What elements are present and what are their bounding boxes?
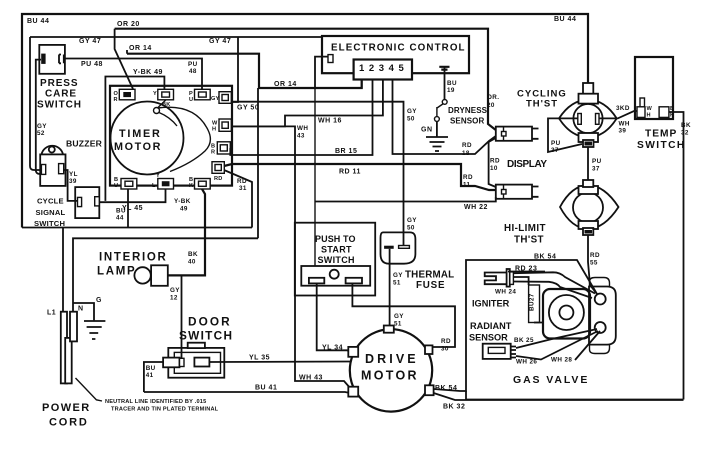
drive motor circle: [350, 329, 432, 411]
wire PU37 from cycling left contact loop to bottom terminal: [548, 118, 582, 152]
temp switch left terminal W/H: [637, 98, 653, 119]
svg-text:55: 55: [590, 260, 598, 267]
svg-text:32: 32: [681, 130, 689, 137]
svg-text:OR 14: OR 14: [129, 45, 152, 52]
wire RD30 from PTS right terminal to drive motor right: [352, 283, 455, 347]
wire BU44 riser from timer BU terminal down to line A: [127, 189, 129, 228]
press care switch right terminal: [59, 55, 64, 64]
wire OR 20 drop to timer OR terminal: [115, 29, 133, 89]
svg-text:BU 44: BU 44: [554, 16, 576, 23]
temp switch box: [635, 57, 673, 119]
svg-text:GY: GY: [211, 96, 220, 102]
wire tap to L1 plate: [62, 228, 64, 313]
ground symbol (power cord): [84, 321, 105, 339]
wire BU41 from door switch left terminal down to bottom run: [144, 362, 163, 392]
radiant sensor inner slot: [488, 347, 505, 353]
wire BU27 loop from igniter down to valve body: [513, 277, 543, 323]
wire RD11 from timer RD terminal to display lower connector: [224, 164, 496, 190]
svg-text:39: 39: [69, 178, 77, 185]
svg-text:GY: GY: [407, 108, 417, 115]
wire EC left terminal riser: [315, 57, 328, 88]
wire YL39 buzzer to cycle signal switch: [64, 170, 78, 201]
wire BU44 outer border: top, left, and bottom-left run: [22, 14, 588, 228]
svg-text:POWER: POWER: [42, 402, 91, 414]
svg-text:39: 39: [619, 128, 627, 135]
electronic control pins box 1 2 3 4 5: [354, 60, 412, 80]
svg-text:GY 50: GY 50: [237, 105, 259, 112]
wire from sensor to ground GN: [436, 122, 438, 138]
gas valve enclosure bottom/left: [466, 391, 684, 400]
gas valve bracket top hole: [595, 294, 606, 305]
svg-text:BK 25: BK 25: [514, 337, 534, 344]
svg-text:37: 37: [551, 147, 559, 154]
svg-text:WH 43: WH 43: [299, 375, 323, 382]
thermal fuse left terminal: [384, 246, 394, 249]
svg-text:BK: BK: [681, 122, 691, 129]
gas valve bracket outer tab top: [590, 278, 610, 287]
svg-text:THERMAL: THERMAL: [405, 270, 454, 281]
cycling thermostat bottom terminal: [579, 133, 599, 142]
radiant sensor box: [483, 344, 511, 359]
svg-text:MOTOR: MOTOR: [361, 369, 419, 383]
svg-text:RD: RD: [237, 178, 247, 185]
svg-text:SWITCH: SWITCH: [34, 219, 65, 228]
drive motor right-lower terminal: [425, 385, 434, 395]
svg-text:U: U: [114, 183, 118, 189]
svg-text:OR 14: OR 14: [274, 81, 297, 88]
timer terminal YL (bottom-middle): [152, 173, 174, 189]
wire BU19 from EC terminal down to dryness sensor: [444, 67, 446, 100]
svg-text:K: K: [189, 183, 193, 189]
display upper connector: [496, 127, 539, 141]
svg-text:51: 51: [394, 321, 402, 328]
svg-text:PU: PU: [592, 158, 602, 165]
wire BK32 bottom run from motor to right side: [434, 393, 684, 400]
svg-text:K: K: [670, 113, 674, 119]
wire PU48 from press care right terminal to timer PU terminal: [64, 59, 202, 90]
svg-text:IGNITER: IGNITER: [472, 299, 510, 309]
hi-limit thermostat lobed body: [560, 185, 619, 229]
svg-text:BK: BK: [188, 251, 198, 258]
wire WH43 vertical from timer WH line down to drive motor: [231, 126, 351, 389]
svg-text:41: 41: [146, 372, 154, 379]
hi-limit top terminal: [579, 186, 599, 194]
power cord plate L1: [61, 312, 67, 384]
svg-text:BK: BK: [162, 102, 170, 108]
svg-text:Y-BK: Y-BK: [174, 198, 191, 205]
cycling thermostat left contact: [578, 114, 582, 125]
wire RD23 from igniter to gas valve bracket: [513, 272, 595, 293]
svg-text:11: 11: [463, 182, 471, 189]
timer motor box: [110, 86, 232, 186]
wire WH24 from igniter to gas valve: [513, 282, 592, 299]
svg-text:44: 44: [116, 215, 124, 222]
svg-text:BK 54: BK 54: [435, 385, 457, 392]
wire GY47 right drop to timer GY terminal: [231, 37, 238, 102]
timer terminal BR (right side): [211, 142, 230, 156]
wire riser x=258 from line B up to OR14 bend: [257, 88, 259, 238]
svg-text:SWITCH: SWITCH: [318, 255, 355, 265]
svg-text:LAMP: LAMP: [97, 266, 136, 278]
svg-text:43: 43: [297, 133, 305, 140]
gas valve body: [543, 289, 590, 339]
svg-text:BU 41: BU 41: [255, 385, 277, 392]
svg-text:RD: RD: [590, 252, 600, 259]
svg-text:DISPLAY: DISPLAY: [507, 159, 547, 170]
svg-text:10: 10: [490, 165, 498, 172]
wire line B (y=238.3) interior lamp feed: [73, 238, 258, 311]
svg-text:R: R: [211, 150, 215, 156]
svg-text:CORD: CORD: [49, 417, 89, 429]
wire WH28 from valve lower area: [575, 331, 600, 360]
svg-text:Y: Y: [156, 173, 160, 179]
cycling thermostat right contact: [596, 114, 600, 125]
svg-text:DRYNESS: DRYNESS: [448, 106, 488, 115]
wire RD55 from hi-limit down to gas valve bracket: [588, 235, 597, 294]
svg-text:48: 48: [189, 68, 197, 75]
svg-text:PU 48: PU 48: [81, 61, 103, 68]
svg-text:BU27: BU27: [529, 293, 536, 311]
svg-text:20: 20: [487, 102, 495, 109]
timer terminal Y-BK (top-middle): [153, 89, 174, 108]
interior lamp bulb: [134, 267, 150, 283]
timer cam inner line: [159, 113, 177, 127]
electronic control left terminal: [328, 55, 333, 63]
push to start switch enclosure: [295, 223, 375, 296]
wire WH22 long run from cycle signal switch to display lower connector: [315, 197, 496, 202]
door switch inner box: [174, 352, 220, 373]
svg-text:PU: PU: [188, 61, 198, 68]
ground GN symbol: [426, 137, 448, 151]
timer terminal BU (bottom-left): [114, 177, 137, 189]
svg-text:50: 50: [407, 116, 415, 123]
svg-text:WH 16: WH 16: [318, 118, 342, 125]
svg-text:12345: 12345: [359, 63, 408, 74]
timer cam lobe curve: [158, 107, 211, 171]
svg-text:BK 32: BK 32: [443, 404, 465, 411]
interior lamp neck: [150, 272, 153, 280]
svg-text:YL: YL: [69, 171, 78, 178]
svg-text:CYCLE: CYCLE: [37, 197, 64, 206]
svg-text:GY: GY: [407, 217, 417, 224]
timer terminal RD (boxed, right side): [212, 162, 224, 182]
svg-text:W: W: [647, 106, 653, 112]
interior lamp base: [151, 265, 168, 286]
svg-text:PUSH TO: PUSH TO: [315, 234, 356, 244]
power cord plate middle: [65, 338, 72, 384]
svg-text:12: 12: [170, 295, 178, 302]
gas valve mounting bracket: [589, 287, 616, 345]
svg-text:ELECTRONIC CONTROL: ELECTRONIC CONTROL: [331, 43, 466, 54]
buzzer left terminal: [41, 165, 45, 175]
svg-text:GY: GY: [394, 313, 404, 320]
svg-text:RD 11: RD 11: [339, 169, 361, 176]
svg-text:GY 47: GY 47: [79, 38, 101, 45]
svg-text:YL 34: YL 34: [322, 345, 343, 352]
timer terminal PU (top-right): [189, 89, 210, 103]
svg-text:GY: GY: [170, 287, 180, 294]
cycle signal switch left terminal: [78, 197, 82, 206]
svg-text:L1: L1: [47, 310, 56, 317]
svg-text:H: H: [647, 113, 651, 119]
svg-text:MOTOR: MOTOR: [114, 141, 162, 153]
wire WH26 from radiant sensor to valve: [516, 331, 598, 360]
svg-text:GY: GY: [393, 272, 403, 279]
svg-text:GY: GY: [37, 123, 47, 130]
electronic control right terminal (bar pair): [439, 67, 449, 70]
electronic control box U1: [322, 36, 469, 73]
igniter connector plug: [485, 269, 514, 287]
wire GY12 from lamp down to door switch: [181, 275, 183, 358]
thermal fuse right terminal: [399, 246, 410, 249]
wire N to ground: [73, 303, 94, 320]
svg-text:DOOR: DOOR: [188, 315, 232, 329]
svg-text:SENSOR: SENSOR: [450, 117, 485, 126]
wire BK40 from lamp to line B: [168, 189, 205, 275]
svg-text:RD: RD: [214, 176, 222, 182]
svg-text:TH'ST: TH'ST: [514, 235, 544, 246]
svg-text:SWITCH: SWITCH: [179, 329, 233, 343]
wire BR15: EC pin2 down and left to timer BR terminal: [230, 80, 372, 156]
thermal fuse body: [381, 232, 416, 263]
svg-text:31: 31: [239, 185, 247, 192]
cycle signal switch box: [75, 187, 99, 218]
wire WH16: EC pin3 down, left, jog to timer WH terminal: [231, 80, 383, 127]
svg-text:40: 40: [188, 259, 196, 266]
svg-text:TEMP: TEMP: [645, 129, 677, 140]
svg-text:G: G: [96, 297, 102, 304]
svg-text:WH: WH: [297, 125, 308, 132]
svg-text:RADIANT: RADIANT: [470, 321, 512, 331]
buzzer inner circle: [49, 147, 55, 153]
buzzer box: [40, 154, 65, 186]
timer cam small circle: [154, 108, 160, 114]
svg-text:TH'ST: TH'ST: [526, 99, 558, 110]
display lower connector: [496, 185, 539, 199]
wire OR 20 top run: [115, 29, 496, 130]
press care switch PC1 box: [39, 45, 65, 74]
wire GY52 from press care left terminal down to buzzer: [36, 60, 42, 174]
svg-text:18: 18: [462, 150, 470, 157]
svg-text:49: 49: [180, 206, 188, 213]
timer terminal BK (bottom-right): [189, 177, 210, 189]
svg-text:RD: RD: [490, 158, 500, 165]
drive motor right-upper terminal: [425, 345, 433, 354]
svg-text:NEUTRAL LINE IDENTIFIED BY .01: NEUTRAL LINE IDENTIFIED BY .015: [105, 399, 206, 405]
svg-text:TIMER: TIMER: [119, 128, 162, 140]
svg-text:BK 54: BK 54: [534, 254, 556, 261]
svg-text:SWITCH: SWITCH: [37, 100, 82, 111]
svg-text:3KD: 3KD: [616, 105, 630, 112]
door switch top bump: [188, 343, 205, 348]
wire YL45 run below timer: [99, 189, 165, 202]
wire GY47 inner top line from buzzer riser to EC box: [30, 36, 322, 38]
svg-text:37: 37: [592, 166, 600, 173]
svg-text:WH 22: WH 22: [464, 204, 488, 211]
gas valve bracket bottom hole: [595, 322, 606, 333]
push to start right terminal: [346, 278, 362, 284]
svg-text:SIGNAL: SIGNAL: [36, 208, 66, 217]
svg-text:50: 50: [407, 225, 415, 232]
svg-text:U: U: [189, 97, 193, 103]
drive motor left-lower terminal: [348, 387, 358, 397]
radiant sensor right tabs: [511, 347, 516, 358]
svg-text:RD: RD: [462, 142, 472, 149]
gas valve coil inner circle: [559, 306, 573, 320]
timer cam link line: [158, 100, 167, 108]
cycling thermostat top terminal: [583, 83, 593, 94]
cycling thermostat lobed body: [559, 100, 617, 138]
cycling thermostat circle: [573, 104, 602, 133]
svg-text:Y-BK 49: Y-BK 49: [133, 69, 163, 76]
cycle signal switch right terminal: [95, 197, 100, 206]
wire line A (y=227.5) from left border to RD31 riser: [22, 227, 252, 229]
buzzer dome: [42, 146, 64, 155]
hi-limit thermostat circle: [573, 193, 603, 223]
svg-text:YL 35: YL 35: [249, 355, 270, 362]
svg-text:N: N: [78, 306, 84, 313]
power cord plate N: [70, 312, 77, 342]
svg-text:PU: PU: [551, 140, 561, 147]
door switch outer box: [168, 348, 224, 378]
hi-limit bottom terminal: [579, 221, 599, 229]
wire RD23 horizontal segment under label: [508, 271, 545, 273]
wire WH39 from cycling right contact to temp switch: [599, 111, 637, 118]
svg-text:WH: WH: [619, 121, 630, 128]
svg-text:SWITCH: SWITCH: [637, 140, 686, 151]
svg-text:BUZZER: BUZZER: [66, 139, 103, 149]
wire RD31 riser from line A up to timer RD terminal: [224, 170, 252, 228]
svg-text:R: R: [114, 97, 118, 103]
svg-text:Y: Y: [153, 91, 157, 97]
dryness sensor upper contact circle: [442, 100, 447, 105]
wire GY50 from timer GY terminal to thermal fuse: [231, 102, 403, 245]
press care switch left terminal: [41, 54, 45, 64]
svg-text:GN: GN: [421, 127, 433, 134]
wire YL34 from PTS left terminal to drive motor: [317, 283, 356, 354]
push to start switch box: [301, 266, 370, 286]
svg-text:19: 19: [447, 87, 455, 94]
wire RD10 between display connectors: [489, 138, 496, 187]
drive motor top terminal: [384, 326, 394, 333]
svg-text:52: 52: [37, 130, 45, 137]
wire BK32 from temp switch right terminal down right side to bottom: [669, 112, 684, 400]
gas valve bracket outer tab bottom: [590, 345, 610, 354]
svg-text:GAS VALVE: GAS VALVE: [513, 374, 589, 386]
svg-text:GY 47: GY 47: [209, 38, 231, 45]
wire BK25 from radiant sensor to valve: [516, 329, 597, 348]
timer motor main circle: [111, 102, 184, 175]
temp switch right terminal B/K: [659, 106, 674, 119]
timer terminal GY (right side): [211, 92, 231, 104]
wire long vertical x=315 down to push-to-start enclosure: [314, 88, 316, 266]
wire PU37 cycling bottom to hi-limit top: [587, 147, 589, 180]
timer terminal OR (top-left): [114, 89, 136, 103]
svg-text:DRIVE: DRIVE: [365, 352, 419, 366]
push to start left terminal: [309, 278, 324, 284]
svg-text:FUSE: FUSE: [416, 280, 445, 291]
wire Y-BK49 top loop: [105, 77, 164, 201]
gas valve coil circle: [549, 295, 584, 330]
svg-text:BR 15: BR 15: [335, 148, 357, 155]
wire OR14 run to EC: [126, 50, 128, 54]
svg-text:SENSOR: SENSOR: [469, 333, 508, 343]
push to start button circle: [330, 270, 339, 279]
door switch left terminal: [163, 358, 179, 368]
svg-text:INTERIOR: INTERIOR: [99, 252, 168, 264]
drive motor left-upper terminal: [348, 347, 358, 357]
wire GY51 from thermal fuse left terminal down to drive motor: [389, 249, 391, 325]
svg-text:WH 26: WH 26: [516, 359, 537, 366]
svg-text:RD: RD: [463, 174, 473, 181]
svg-text:BU: BU: [146, 365, 156, 372]
svg-text:HI-LIMIT: HI-LIMIT: [504, 223, 546, 234]
svg-text:BU 44: BU 44: [27, 18, 49, 25]
svg-text:WH 28: WH 28: [551, 357, 572, 364]
svg-text:START: START: [321, 245, 352, 255]
svg-text:51: 51: [393, 280, 401, 287]
wire BU41 bottom run to drive motor: [144, 392, 350, 393]
svg-text:OR 20: OR 20: [117, 21, 140, 28]
svg-text:L: L: [152, 183, 156, 189]
wire RD18: EC pin5 down to display upper connector: [393, 80, 496, 155]
wire GY47 left drop to buzzer: [30, 37, 41, 170]
dryness sensor lower contact circle: [435, 117, 440, 122]
svg-text:OR.: OR.: [487, 94, 499, 101]
svg-text:TRACER AND TIN PLATED TERMINAL: TRACER AND TIN PLATED TERMINAL: [111, 407, 219, 413]
power cord pointer line to note: [76, 378, 103, 401]
door switch inner contact: [194, 358, 209, 367]
timer terminal WH (right side): [212, 119, 231, 133]
dryness sensor probe line: [437, 104, 444, 118]
wire BK54 from motor to gas valve area: [434, 260, 597, 391]
buzzer right terminal: [59, 164, 64, 174]
svg-text:WH 24: WH 24: [495, 289, 516, 296]
svg-text:30: 30: [441, 346, 449, 353]
svg-text:RD: RD: [441, 338, 451, 345]
svg-text:CARE: CARE: [45, 89, 77, 100]
wire EC pin1 to OR14 line (already drawn riser): [361, 80, 363, 89]
svg-text:H: H: [212, 127, 216, 133]
wire YL35 from door switch contact to drive motor: [209, 361, 350, 364]
svg-text:YL 45: YL 45: [122, 205, 143, 212]
svg-text:PRESS: PRESS: [40, 78, 78, 89]
svg-text:BU: BU: [447, 80, 457, 87]
